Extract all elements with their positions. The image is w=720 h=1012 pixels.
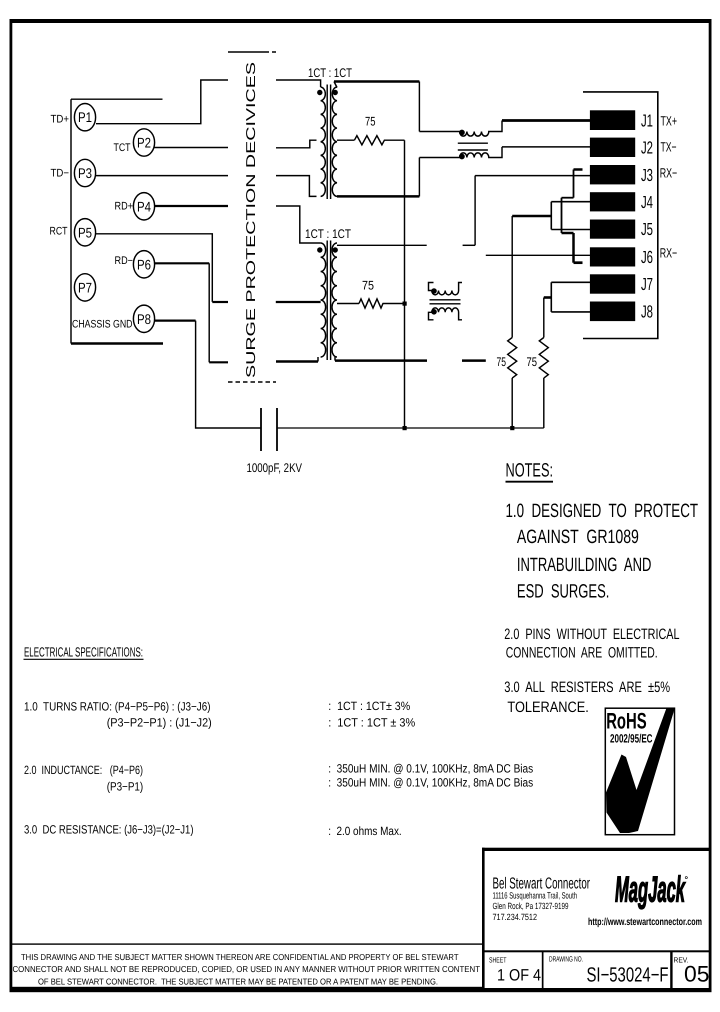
svg-text:3.0 ALL RESISTERS ARE ±5%: 3.0 ALL RESISTERS ARE ±5%: [504, 679, 670, 696]
svg-text:AGAINST GR1089: AGAINST GR1089: [517, 527, 639, 548]
svg-text:TX+: TX+: [661, 113, 678, 128]
svg-text:1CT : 1CT: 1CT : 1CT: [305, 227, 351, 241]
svg-text:P1: P1: [78, 109, 92, 125]
svg-text:2.0 INDUCTANCE: (P4−P6): 2.0 INDUCTANCE: (P4−P6): [24, 763, 143, 777]
svg-text:http://www.stewartconnector.co: http://www.stewartconnector.com: [588, 917, 702, 928]
svg-text:CHASSIS GND: CHASSIS GND: [72, 319, 133, 331]
svg-text:2002/95/EC: 2002/95/EC: [610, 732, 653, 746]
svg-text:INTRABUILDING AND: INTRABUILDING AND: [517, 555, 652, 576]
svg-text:J1: J1: [641, 110, 653, 130]
svg-text:1 OF 4: 1 OF 4: [497, 967, 541, 985]
svg-text:11116 Susquehanna Trail, South: 11116 Susquehanna Trail, South: [493, 890, 578, 900]
svg-text:05: 05: [684, 962, 710, 987]
svg-text:P2: P2: [137, 135, 151, 151]
svg-text:Glen Rock, Pa 17327-9199: Glen Rock, Pa 17327-9199: [493, 901, 569, 911]
svg-text:(P3−P2−P1) : (J1−J2): (P3−P2−P1) : (J1−J2): [107, 716, 212, 730]
svg-text:J7: J7: [641, 274, 653, 294]
svg-text:SURGE PROTECTION DECIVICES: SURGE PROTECTION DECIVICES: [243, 62, 258, 378]
svg-text:P6: P6: [137, 256, 151, 272]
svg-text:P5: P5: [78, 224, 92, 240]
svg-text:CONNECTOR AND SHALL NOT BE REP: CONNECTOR AND SHALL NOT BE REPRODUCED, C…: [13, 964, 481, 974]
svg-text:1.0 TURNS RATIO: (P4−P5−P6) :: 1.0 TURNS RATIO: (P4−P5−P6) : (J3−J6): [24, 700, 211, 714]
svg-text:1.0 DESIGNED TO PROTECT: 1.0 DESIGNED TO PROTECT: [506, 501, 699, 522]
svg-text:P8: P8: [137, 311, 151, 327]
svg-text:TOLERANCE.: TOLERANCE.: [507, 699, 588, 716]
svg-text:RX−: RX−: [660, 246, 678, 261]
svg-text:1CT : 1CT: 1CT : 1CT: [308, 66, 352, 80]
svg-text:J2: J2: [641, 137, 653, 157]
svg-text:: 2.0 ohms Max.: : 2.0 ohms Max.: [328, 824, 402, 838]
svg-text:J8: J8: [641, 301, 653, 321]
svg-text:J3: J3: [641, 165, 653, 185]
svg-text:P7: P7: [78, 279, 92, 295]
svg-text:RCT: RCT: [50, 226, 68, 238]
svg-text:: 350uH MIN. @ 0.1V, 100KHz,: : 350uH MIN. @ 0.1V, 100KHz, 8mA DC Bias: [328, 776, 533, 790]
svg-text:RD−: RD−: [115, 255, 134, 267]
svg-text:SHEET: SHEET: [489, 955, 507, 964]
svg-text:1000pF, 2KV: 1000pF, 2KV: [247, 461, 303, 475]
svg-text:75: 75: [497, 355, 507, 369]
svg-text:(P3−P1): (P3−P1): [107, 780, 144, 794]
svg-text:RoHS: RoHS: [606, 709, 647, 734]
svg-text:3.0 DC RESISTANCE: (J6−J3)=(J: 3.0 DC RESISTANCE: (J6−J3)=(J2−J1): [24, 823, 194, 837]
svg-text:J4: J4: [641, 192, 653, 212]
svg-text:RX−: RX−: [660, 166, 678, 181]
svg-text:: 1CT : 1CT ± 3%: : 1CT : 1CT ± 3%: [328, 716, 415, 730]
svg-text:: 350uH MIN. @ 0.1V, 100KHz,: : 350uH MIN. @ 0.1V, 100KHz, 8mA DC Bias: [328, 762, 533, 776]
svg-text:J6: J6: [641, 247, 653, 267]
svg-text:TD−: TD−: [51, 168, 70, 180]
svg-text:ESD SURGES.: ESD SURGES.: [517, 582, 610, 603]
svg-text:P4: P4: [137, 198, 151, 214]
svg-text:TD+: TD+: [51, 114, 70, 126]
svg-text:2.0 PINS WITHOUT ELECTRICAL: 2.0 PINS WITHOUT ELECTRICAL: [504, 626, 679, 643]
svg-text:SI−53024−F: SI−53024−F: [587, 964, 669, 987]
svg-text:NOTES:: NOTES:: [506, 460, 554, 481]
svg-text:TCT: TCT: [114, 142, 131, 154]
svg-text:717.234.7512: 717.234.7512: [493, 912, 538, 922]
svg-text:CONNECTION ARE OMITTED.: CONNECTION ARE OMITTED.: [506, 645, 658, 662]
svg-text:THIS DRAWING AND THE SUBJECT M: THIS DRAWING AND THE SUBJECT MATTER SHOW…: [21, 952, 459, 962]
svg-text:: 1CT : 1CT± 3%: : 1CT : 1CT± 3%: [328, 699, 410, 713]
svg-text:TX−: TX−: [661, 140, 677, 155]
svg-text:P3: P3: [78, 165, 92, 181]
svg-text:RD+: RD+: [115, 201, 134, 213]
svg-text:MagJack: MagJack: [615, 869, 686, 910]
svg-text:OF BEL STEWART CONNECTOR. THE: OF BEL STEWART CONNECTOR. THE SUBJECT MA…: [38, 976, 438, 986]
svg-text:ELECTRICAL SPECIFICATIONS:: ELECTRICAL SPECIFICATIONS:: [24, 645, 143, 660]
svg-text:J5: J5: [641, 219, 653, 239]
svg-text:DRAWING NO.: DRAWING NO.: [549, 955, 583, 964]
svg-text:75: 75: [365, 114, 376, 128]
svg-text:75: 75: [527, 355, 538, 369]
svg-text:75: 75: [362, 279, 374, 293]
svg-text:°: °: [685, 875, 689, 885]
